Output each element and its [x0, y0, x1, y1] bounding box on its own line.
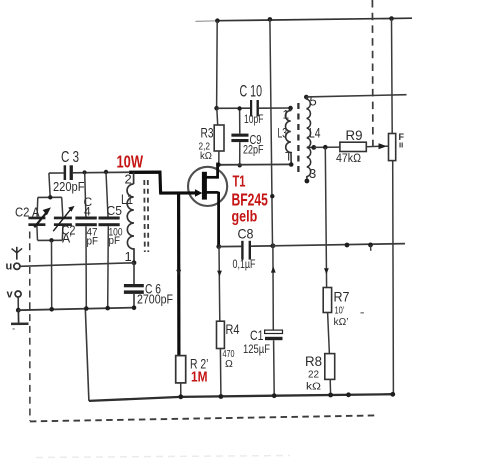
svg-text:T: T — [285, 150, 293, 164]
resistor R9 — [336, 127, 366, 165]
node bus extra — [346, 392, 351, 397]
inductor L3 — [278, 106, 294, 167]
svg-text:1M: 1M — [191, 370, 208, 386]
node gnd bus C5 — [105, 306, 110, 311]
wire R7 column — [325, 147, 326, 287]
wire C3 to L1 top bus — [73, 171, 130, 174]
node top-bus / right column — [389, 16, 394, 21]
svg-text:T1: T1 — [233, 174, 246, 191]
wire R9 row — [314, 146, 340, 148]
node bus R2 — [178, 394, 183, 399]
svg-text:L1: L1 — [121, 191, 133, 207]
svg-text:C 10: C 10 — [240, 82, 263, 101]
svg-text:125µF: 125µF — [243, 342, 270, 356]
svg-text:pF: pF — [109, 235, 121, 247]
capacitor C1 — [243, 327, 283, 396]
arrow on C1 wire — [271, 266, 276, 272]
antenna — [12, 247, 23, 260]
resistor R7 — [323, 288, 349, 329]
ground — [11, 310, 29, 330]
node on C8 bus 2 — [368, 243, 373, 251]
wire C3 left to tuning frame — [49, 173, 50, 197]
capacitor C5 — [99, 172, 123, 308]
svg-text:R4: R4 — [226, 321, 240, 337]
svg-text:kΩ: kΩ — [200, 150, 212, 162]
wire L4 top to right — [306, 95, 406, 97]
svg-text:R9: R9 — [346, 127, 363, 143]
terminal v — [7, 289, 22, 301]
wire tuning frame bottom column — [51, 240, 53, 309]
svg-text:3: 3 — [309, 166, 316, 181]
svg-text:1: 1 — [283, 108, 290, 122]
svg-text:2700pF: 2700pF — [137, 292, 173, 307]
svg-text:pF: pF — [87, 236, 99, 248]
wire C10 row right — [259, 107, 291, 109]
svg-text:BF245: BF245 — [232, 190, 269, 210]
node bus R4 — [219, 394, 224, 399]
arrow on R7 wire — [324, 268, 329, 274]
node top bus C5 — [104, 170, 108, 174]
svg-text:R7: R7 — [334, 289, 350, 305]
faint dashed remnant bottom — [36, 456, 290, 458]
arrow on R4 wire — [217, 271, 222, 277]
wire R2 column thick — [177, 193, 180, 356]
resistor R2 — [176, 356, 209, 397]
svg-text:4: 4 — [84, 205, 91, 219]
node R9 row / R7 column — [323, 145, 328, 150]
wire u to L1 bottom — [20, 263, 134, 267]
dashed border bottom — [30, 415, 379, 421]
svg-text:22: 22 — [308, 369, 319, 381]
svg-text:R3: R3 — [201, 126, 214, 141]
svg-text:gelb: gelb — [232, 208, 258, 225]
svg-text:1: 1 — [125, 249, 132, 264]
dashed border left — [29, 232, 31, 422]
node on C8 bus — [345, 243, 350, 248]
svg-text:kΩ’: kΩ’ — [334, 316, 349, 328]
dashed feedback line top right — [371, 0, 374, 146]
capacitor C8 row — [216, 226, 272, 272]
svg-text:u: u — [6, 261, 13, 273]
capacitor C2A plates — [15, 205, 51, 228]
svg-text:2: 2 — [125, 172, 132, 187]
inductor L1 core — [144, 180, 148, 252]
svg-text:22pF: 22pF — [243, 145, 264, 157]
svg-text:5: 5 — [310, 94, 317, 109]
wire C8 bus to right — [273, 244, 405, 246]
svg-text:kΩ: kΩ — [306, 381, 321, 393]
svg-text:Ω: Ω — [225, 358, 233, 370]
svg-text:C5: C5 — [107, 203, 123, 218]
node gnd bus C6 — [132, 305, 137, 310]
wire right column upper — [391, 19, 394, 134]
capacitor C3 — [49, 149, 85, 194]
svg-text:L4: L4 — [309, 125, 321, 141]
svg-text:C2 A: C2 A — [15, 205, 40, 220]
node bus C1 — [272, 393, 277, 398]
wire R9 to pot with wiper arrow — [366, 143, 388, 149]
inductor L1 — [121, 172, 136, 266]
svg-text:C 3: C 3 — [61, 149, 79, 166]
node bus R8 — [328, 393, 333, 398]
node top-bus / R3 column — [215, 18, 220, 23]
node C9 top — [237, 106, 241, 110]
wire gate path thick — [129, 171, 197, 193]
svg-text:10pF: 10pF — [244, 114, 264, 126]
variable capacitor C2A / C2A' frame — [37, 195, 63, 242]
wire right column lower — [392, 161, 395, 395]
wire R4 column — [218, 247, 221, 322]
capacitor C6 — [124, 263, 173, 308]
node gnd bus C2 — [49, 307, 54, 312]
resistor R4 — [217, 321, 240, 397]
wire v down — [17, 297, 19, 310]
transistor T1 — [188, 163, 227, 247]
wire C10 row left — [217, 107, 251, 109]
potentiometer R1 — [389, 132, 405, 161]
resistor R3 — [199, 108, 225, 165]
capacitor C9 — [231, 108, 263, 165]
node drain / R3 bottom — [216, 162, 221, 167]
svg-text:47kΩ: 47kΩ — [336, 153, 361, 165]
svg-text:C8: C8 — [238, 226, 254, 242]
svg-text:L3: L3 — [278, 125, 288, 141]
node v / ground bus — [16, 308, 21, 313]
capacitor C4 — [75, 172, 98, 308]
wire R7 to R8 — [328, 313, 330, 354]
svg-text:C1: C1 — [250, 327, 264, 343]
svg-text:10’: 10’ — [335, 305, 345, 317]
svg-text:220pF: 220pF — [53, 179, 85, 194]
node C8 right — [271, 243, 276, 248]
wire top supply bus — [196, 18, 413, 21]
svg-text:0,1µF: 0,1µF — [233, 259, 256, 271]
node gnd bus C4 — [84, 306, 89, 311]
node bus right column — [390, 392, 395, 397]
node on C column — [270, 194, 274, 198]
terminal u — [6, 261, 21, 273]
resistor R8 — [305, 353, 335, 395]
wire C column to C1 — [272, 246, 274, 330]
capacitor C10 — [240, 82, 264, 127]
svg-text:v: v — [7, 289, 14, 301]
wire C column from top bus to C8 — [270, 19, 273, 245]
inductor L4 — [304, 94, 321, 184]
wire ground bus y308 — [18, 308, 134, 311]
capacitor C2A' plates — [53, 206, 75, 246]
svg-text:II: II — [399, 141, 403, 150]
wire ground drop left — [85, 308, 89, 401]
label T1 red — [232, 174, 269, 226]
svg-text:10W: 10W — [117, 151, 144, 171]
wire bottom ground bus — [89, 394, 393, 401]
arrow on R2 wire — [176, 270, 181, 276]
node top-bus / C-column — [268, 17, 273, 22]
svg-text:A’: A’ — [62, 231, 72, 246]
wire R3 column from top bus — [216, 21, 219, 109]
svg-text:R8: R8 — [305, 353, 322, 369]
node R3 top — [214, 106, 219, 111]
transformer core — [297, 103, 299, 176]
node top bus C4 — [83, 170, 87, 174]
faint mark near R7 — [361, 312, 364, 314]
node C9 bottom — [238, 163, 242, 167]
wire drain bus y165 — [219, 163, 292, 165]
